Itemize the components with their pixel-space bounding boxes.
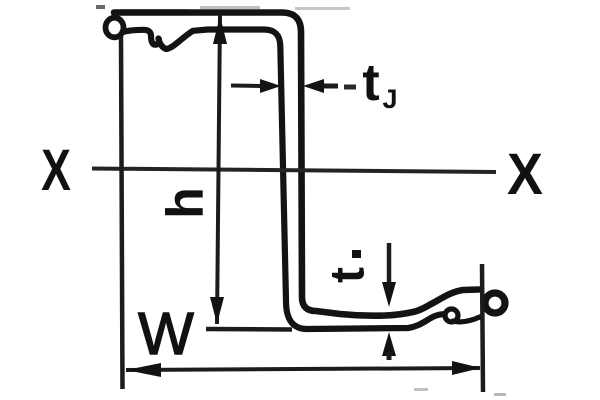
svg-text:X: X (41, 137, 71, 202)
left extension line (121, 36, 123, 389)
W left arrowhead (126, 363, 161, 377)
hook to bulb connector (453, 317, 481, 322)
outer profile: top edge, right web face, flange top, into bulb (114, 13, 479, 316)
dimension W line (126, 368, 480, 370)
svg-text:t: t (362, 54, 379, 112)
h bottom arrowhead (210, 297, 224, 324)
h top arrowhead (213, 16, 227, 44)
dimension h line (217, 14, 220, 324)
svg-text:X: X (507, 141, 543, 206)
right extension line (482, 264, 483, 392)
svg-text:J: J (382, 84, 397, 114)
t1 dimension right arrow (303, 79, 324, 93)
h bottom tick line (206, 327, 292, 332)
svg-text:h: h (157, 187, 215, 219)
bottom-right bulb curl (485, 293, 505, 313)
scan noise specks top (96, 5, 105, 9)
t dimension upper arrow (387, 243, 392, 285)
small hook curl on flange bottom near bulb (445, 309, 458, 322)
W right arrowhead (452, 361, 481, 375)
t1 dimension left arrow (231, 84, 262, 89)
top-left curl (bulb) (106, 18, 124, 38)
inner profile: curl wave, inner top edge, left web face, flange bottom edge (123, 30, 444, 330)
t dimension lower arrow (382, 332, 396, 356)
svg-text:t: t (322, 267, 375, 283)
axis line X-X (92, 169, 496, 173)
svg-text:W: W (138, 301, 194, 367)
dot above t label (352, 250, 361, 258)
